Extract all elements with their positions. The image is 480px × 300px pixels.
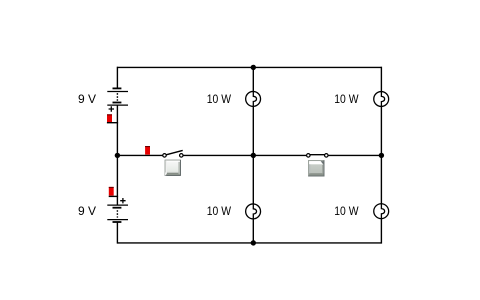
wire battery B1 to node A [116, 105, 118, 155]
battery B2 9 V (positive up, negative down) [107, 205, 128, 222]
wire node A to battery B2 [116, 155, 118, 204]
wire bottom rail [117, 242, 381, 244]
lamp L3 (10 W) [246, 204, 261, 219]
switch SW1 pushbutton (released) [165, 160, 181, 176]
svg-text:10 W: 10 W [207, 204, 232, 218]
svg-text:10 W: 10 W [207, 92, 232, 106]
switch SW1 (open) [163, 150, 183, 157]
wire switch SW1 to node B [183, 154, 253, 156]
wire node B to lamp L3 [252, 155, 254, 204]
switch SW2 pushbutton (pressed) [308, 160, 324, 176]
battery B2 red indicator flag [109, 187, 118, 197]
wire right rail upper to lamp L2 [380, 67, 382, 92]
wire lamp L1 to node B [252, 106, 254, 155]
node C junction dot [379, 153, 384, 158]
svg-text:9 V: 9 V [78, 92, 96, 106]
battery B1 red indicator flag [107, 114, 118, 122]
wire node C to lamp L4 [380, 155, 382, 203]
bottom-mid junction dot [251, 240, 256, 245]
wire lamp L3 to bottom rail [252, 219, 254, 243]
svg-text:9 V: 9 V [78, 204, 96, 218]
lamp L2 (10 W) [374, 91, 389, 106]
lamp L1 (10 W) [246, 91, 261, 106]
lamp L4 (10 W) [374, 204, 389, 219]
switch SW2 (closed) [307, 154, 329, 158]
wire lamp L4 to bottom-right corner [380, 219, 382, 244]
switch SW1 red indicator flag [145, 146, 150, 155]
wire switch SW2 to node C [328, 154, 381, 156]
wire node A to switch SW1 [117, 154, 162, 156]
wire top rail [117, 66, 381, 68]
wire lamp L2 to node C [380, 106, 382, 155]
battery B1 9 V (negative up, positive down) [107, 88, 128, 105]
top-mid junction dot [251, 65, 256, 70]
wire battery B2 to bottom-left corner [116, 222, 118, 243]
wire left rail upper to battery B1 [116, 67, 118, 88]
battery B2 plus sign [120, 198, 125, 203]
wire node B to switch SW2 [253, 154, 306, 156]
wire top rail to lamp L1 [252, 67, 254, 91]
svg-text:10 W: 10 W [334, 204, 359, 218]
svg-text:10 W: 10 W [334, 92, 359, 106]
node B junction dot [251, 153, 256, 158]
battery B1 plus sign [109, 106, 114, 111]
node A junction dot [115, 153, 120, 158]
